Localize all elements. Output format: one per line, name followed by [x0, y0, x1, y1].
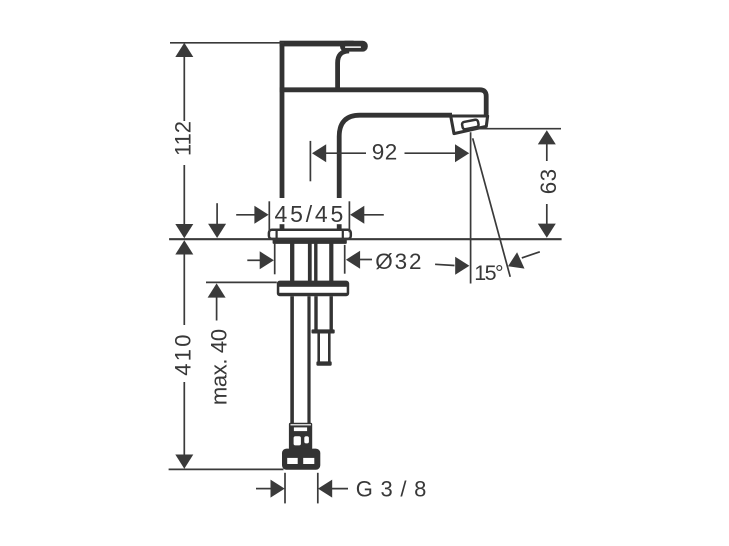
- 15 deg right-pointing arrow: [455, 257, 469, 275]
- dimension 112 line lower: [183, 165, 185, 225]
- 92 line right: [405, 152, 456, 154]
- dimension 410 lower arrow: [175, 455, 193, 469]
- crimp white slot left: [294, 436, 301, 445]
- mounting stud right wall: [330, 296, 333, 330]
- shank pipe line 2: [308, 244, 312, 282]
- G3/8 left tail: [256, 488, 271, 490]
- Ø32 extension line left: [274, 243, 276, 274]
- spout underside and body right edge: [339, 115, 452, 232]
- aerator tilted body: [451, 116, 488, 134]
- 92 line left: [326, 152, 367, 154]
- G3/8 left arrow: [271, 480, 285, 498]
- escutcheon white band: [279, 287, 346, 293]
- 63 upper arrow: [538, 130, 556, 144]
- 15 degree slant line: [473, 138, 511, 276]
- bottom extension line for 410: [169, 468, 284, 470]
- svg-text:112: 112: [170, 121, 195, 156]
- svg-text:max. 40: max. 40: [206, 329, 231, 405]
- svg-text:410: 410: [170, 332, 195, 376]
- body left edge: [280, 41, 285, 232]
- dimension 112 line upper: [183, 56, 185, 121]
- crimp white slot right: [304, 436, 309, 443]
- dimension 410 line lower: [183, 382, 185, 456]
- 45/45 extension line left: [268, 201, 270, 232]
- flange lower dark band: [273, 239, 347, 244]
- max40 lower arrow: [208, 283, 226, 297]
- flange end tick left: [276, 230, 278, 238]
- mounting stud left wall: [314, 296, 317, 330]
- max40 lower stem: [216, 297, 218, 321]
- 15 deg slant arrow tail: [522, 252, 540, 258]
- hose crimp block: [289, 423, 312, 450]
- 92 left arrow: [312, 144, 326, 162]
- 45/45 right arrow: [350, 206, 364, 224]
- svg-text:G 3 / 8: G 3 / 8: [356, 477, 427, 502]
- 63 lower arrow: [538, 224, 556, 238]
- 63 top extension line: [469, 128, 561, 130]
- top extension line for 112: [170, 42, 284, 44]
- G3/8 right arrow: [318, 480, 332, 498]
- faucet handle lever bar: [280, 41, 354, 47]
- 45/45 left tail: [236, 214, 255, 216]
- svg-text:63: 63: [536, 168, 561, 194]
- max40 extension line: [206, 281, 277, 283]
- 45/45 right tail: [364, 214, 384, 216]
- 92 right arrow: [455, 144, 469, 162]
- 15 deg slant arrow: [508, 252, 525, 268]
- mounting surface line: [169, 238, 561, 240]
- flange end tick right: [342, 230, 344, 238]
- stud coupling bar: [312, 329, 335, 333]
- max40 upper arrow: [208, 224, 226, 238]
- 45/45 left arrow: [254, 206, 268, 224]
- crimp white band: [294, 427, 307, 431]
- svg-text:Ø32: Ø32: [375, 249, 423, 274]
- nut white window right: [303, 458, 314, 464]
- 15 deg right-pointing arrow tail: [435, 264, 454, 265]
- 63 line lower: [546, 204, 548, 224]
- stud rod right wall: [328, 334, 331, 363]
- Ø32 right arrow: [346, 251, 360, 269]
- Ø32 left tail: [247, 259, 260, 261]
- Ø32 right tail: [360, 259, 372, 261]
- Ø32 extension line right: [344, 245, 346, 274]
- nut white window left: [287, 458, 298, 464]
- shank pipe line 1: [290, 244, 294, 282]
- 63 line upper: [546, 144, 548, 161]
- handle grip white inner sliver: [345, 46, 361, 48]
- 92 centerline extension: [309, 141, 311, 181]
- dimension 112 upper arrow: [175, 43, 193, 57]
- svg-text:92: 92: [372, 140, 398, 165]
- faucet handle grip end: [340, 41, 368, 52]
- dimension 410 upper arrow: [175, 240, 193, 254]
- dimension 112 lower arrow: [175, 224, 193, 238]
- body and spout top edge: [280, 90, 487, 115]
- dimension 410 line upper: [183, 254, 185, 326]
- G3/8 extension line right: [317, 473, 319, 504]
- svg-text:15°: 15°: [474, 261, 503, 285]
- handle neck: [338, 51, 350, 89]
- spout tip vertical extension line: [470, 132, 472, 283]
- 45/45 extension line right: [348, 201, 350, 232]
- supply hose left wall: [290, 296, 294, 423]
- crimp top white sliver: [291, 424, 311, 425]
- escutcheon body: [277, 281, 349, 297]
- stud rod end cap: [316, 361, 331, 365]
- aerator outlet window: [462, 119, 479, 129]
- shank pipe line 4: [329, 244, 333, 282]
- Ø32 left arrow: [260, 251, 274, 269]
- max40 upper stem: [216, 203, 218, 224]
- G3/8 connection nut: [282, 449, 320, 470]
- G3/8 right tail: [332, 488, 348, 490]
- stud rod left wall: [317, 334, 320, 363]
- G3/8 extension line left: [284, 473, 286, 504]
- svg-text:45/45: 45/45: [275, 201, 347, 227]
- white gap for 45/45 label: [270, 198, 348, 224]
- base flange outline: [269, 230, 351, 239]
- supply hose right wall: [307, 296, 310, 423]
- shank pipe line 3: [314, 244, 317, 282]
